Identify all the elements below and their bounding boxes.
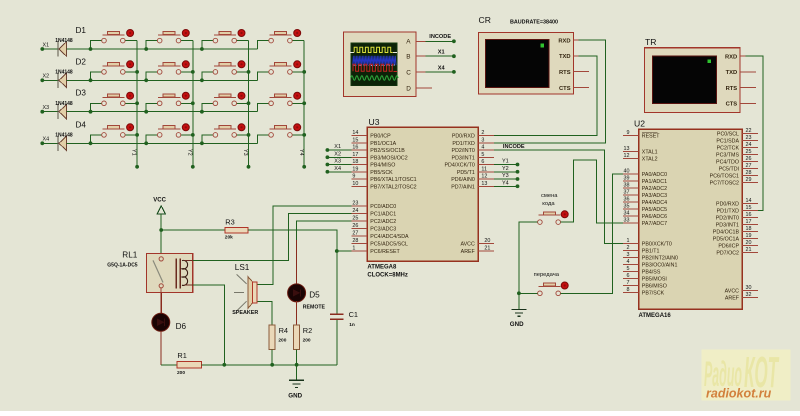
svg-text:PC1/SDA: PC1/SDA bbox=[716, 139, 739, 145]
svg-text:10: 10 bbox=[352, 181, 358, 187]
svg-text:GND: GND bbox=[510, 321, 524, 328]
button keypad row1 col2 bbox=[144, 30, 193, 51]
svg-text:RTS: RTS bbox=[726, 86, 738, 92]
svg-text:PB5/SCK: PB5/SCK bbox=[370, 170, 393, 176]
pin U2 40 PA0/ADC0 bbox=[623, 169, 667, 178]
terminal TR pin names bbox=[725, 54, 737, 107]
svg-text:PA4/ADC4: PA4/ADC4 bbox=[642, 200, 667, 206]
svg-text:RXD: RXD bbox=[725, 54, 737, 60]
svg-text:1: 1 bbox=[352, 246, 355, 252]
pin U2 36 PA4/ADC4 bbox=[623, 197, 667, 206]
svg-text:1: 1 bbox=[627, 238, 630, 244]
svg-text:X2: X2 bbox=[334, 151, 341, 157]
pin U3 23 PC0/ADC0 bbox=[351, 201, 396, 210]
node X1 label bbox=[43, 42, 50, 48]
svg-text:X3: X3 bbox=[334, 159, 341, 165]
pin U3 10 PB7/XTAL2/TOSC2 bbox=[351, 181, 416, 190]
svg-text:REMOTE: REMOTE bbox=[303, 305, 326, 311]
power VCC label bbox=[153, 197, 166, 203]
svg-text:PB5/MOSI: PB5/MOSI bbox=[642, 277, 667, 283]
pin U2 20 PD6/ICP bbox=[718, 240, 758, 249]
svg-text:3: 3 bbox=[627, 252, 630, 258]
pin U3 19 PB5/SCK bbox=[351, 166, 393, 175]
svg-text:XTAL2: XTAL2 bbox=[642, 157, 658, 163]
diode D2 1N4148 bbox=[55, 57, 86, 88]
button keypad row3 col2 bbox=[144, 92, 194, 113]
svg-text:PB2/INT2/AIN0: PB2/INT2/AIN0 bbox=[642, 256, 678, 262]
wire smena left terminal down to junction bbox=[519, 222, 538, 293]
svg-text:PD2/INT0: PD2/INT0 bbox=[452, 148, 475, 154]
wire relay coil bottom to ground rail bbox=[193, 285, 226, 367]
node Y1 column label bbox=[131, 149, 137, 156]
svg-text:35: 35 bbox=[624, 204, 630, 210]
pin U3 26 PC3/ADC3 bbox=[351, 223, 396, 232]
pin U2 21 PD7/OC2 bbox=[716, 247, 758, 256]
pin U2 18 PD4/OC1B bbox=[713, 226, 758, 235]
svg-text:PD3/INT1: PD3/INT1 bbox=[716, 223, 739, 229]
svg-text:PD6/AIN0: PD6/AIN0 bbox=[451, 177, 475, 183]
mcu U3 body bbox=[367, 127, 478, 261]
pin U2 8 PB7/SCK bbox=[623, 287, 665, 296]
svg-text:PC4/ADC4/SDA: PC4/ADC4/SDA bbox=[370, 234, 409, 240]
pin TR TXD (unconnected) bbox=[740, 71, 756, 73]
wire diode D3 to keypad row 3 bbox=[67, 111, 258, 113]
oscilloscope channel labels A B C D bbox=[406, 39, 411, 93]
svg-text:6: 6 bbox=[627, 273, 630, 279]
svg-text:PC0/SCL: PC0/SCL bbox=[717, 132, 739, 138]
svg-text:C1: C1 bbox=[349, 310, 358, 319]
mcu U3 reference label bbox=[369, 117, 380, 127]
svg-text:X1: X1 bbox=[438, 50, 445, 56]
pin U2 3 PB2/INT2/AIN0 bbox=[623, 252, 678, 261]
svg-text:27: 27 bbox=[352, 231, 358, 237]
pin U2 30 AVCC bbox=[725, 285, 758, 294]
svg-text:A: A bbox=[406, 39, 411, 46]
svg-text:20k: 20k bbox=[225, 235, 233, 241]
svg-text:RESET: RESET bbox=[642, 134, 660, 140]
svg-text:LS1: LS1 bbox=[235, 263, 250, 272]
wire TR RXD to U2 PD1/TXD bbox=[746, 56, 764, 211]
pin CR RTS (unconnected) bbox=[573, 71, 589, 73]
button "передача" (transmit) bbox=[538, 282, 569, 296]
svg-text:PA0/ADC0: PA0/ADC0 bbox=[642, 172, 667, 178]
wire U3 PC2 to D5 bbox=[297, 221, 352, 285]
svg-text:12: 12 bbox=[481, 174, 487, 180]
wire oscilloscope A to node INCODE bbox=[425, 39, 455, 43]
pin CR RXD bbox=[573, 39, 578, 41]
resistor R4 200 bbox=[269, 325, 288, 350]
svg-text:1N4148: 1N4148 bbox=[55, 70, 73, 76]
pin U2 5 PB4/SS bbox=[623, 266, 661, 275]
svg-text:14: 14 bbox=[352, 130, 358, 136]
wire R2 to ground rail bbox=[295, 350, 299, 367]
wire speaker to R4 bbox=[258, 302, 273, 325]
pin U3 16 PB2/SS/OC1B bbox=[351, 145, 405, 154]
button keypad row2 col2 bbox=[144, 61, 194, 82]
svg-text:кода: кода bbox=[542, 201, 555, 207]
pin U3 5 PD3/INT1 bbox=[452, 152, 494, 161]
svg-text:26: 26 bbox=[746, 156, 752, 162]
svg-text:22: 22 bbox=[746, 128, 752, 134]
node Y1 label (U3) bbox=[502, 159, 509, 165]
wire D5 to R2 bbox=[296, 301, 298, 325]
svg-text:GND: GND bbox=[288, 393, 302, 400]
svg-text:PD4/XCK/T0: PD4/XCK/T0 bbox=[444, 163, 474, 169]
node X4 label (scope) bbox=[438, 65, 446, 71]
svg-text:X4: X4 bbox=[43, 137, 50, 143]
terminal CR label bbox=[479, 15, 491, 25]
wire keypad column Y3 vertical bbox=[247, 41, 251, 169]
svg-text:5: 5 bbox=[627, 266, 630, 272]
button "смена кода" label bbox=[541, 193, 558, 207]
svg-text:PC5/TDI: PC5/TDI bbox=[719, 167, 739, 173]
svg-text:2: 2 bbox=[627, 245, 630, 251]
svg-text:X1: X1 bbox=[334, 144, 341, 150]
wire CR RXD to U3 PD1/TXD bbox=[494, 40, 606, 143]
pin U2 4 PB3/OC0/AIN1 bbox=[623, 259, 678, 268]
svg-text:RL1: RL1 bbox=[122, 251, 137, 260]
pin U2 2 PB1/T1 bbox=[623, 245, 660, 254]
button "смена кода" (code change) bbox=[538, 211, 569, 225]
svg-text:R3: R3 bbox=[225, 218, 234, 227]
node X3 label bbox=[43, 105, 50, 111]
svg-text:BAUDRATE=38400: BAUDRATE=38400 bbox=[510, 20, 558, 26]
wire VCC to R3 bbox=[161, 229, 225, 231]
pin U2 22 PC0/SCL bbox=[717, 128, 758, 137]
svg-text:11: 11 bbox=[481, 166, 487, 172]
pin U3 6 PD4/XCK/T0 bbox=[444, 159, 493, 168]
svg-text:PB0/ICP: PB0/ICP bbox=[370, 134, 391, 140]
node X3 label (U3) bbox=[334, 159, 341, 165]
pin TR RTS (unconnected) bbox=[740, 87, 756, 89]
svg-text:12: 12 bbox=[624, 153, 630, 159]
svg-text:PB1/OC1A: PB1/OC1A bbox=[370, 141, 396, 147]
svg-text:TXD: TXD bbox=[559, 54, 571, 60]
wire relay switch to D6 bbox=[160, 288, 162, 314]
svg-text:25: 25 bbox=[352, 216, 358, 222]
oscilloscope screen with waveforms bbox=[350, 43, 398, 86]
svg-text:X4: X4 bbox=[334, 166, 341, 172]
button keypad row2 col4 bbox=[258, 61, 307, 81]
pin CR TXD bbox=[573, 55, 578, 57]
svg-text:X3: X3 bbox=[43, 105, 50, 111]
svg-text:VCC: VCC bbox=[153, 197, 166, 203]
svg-text:28: 28 bbox=[746, 170, 752, 176]
svg-text:X2: X2 bbox=[43, 74, 50, 80]
svg-text:21: 21 bbox=[484, 246, 490, 252]
svg-text:18: 18 bbox=[746, 226, 752, 232]
pin U3 15 PB1/OC1A bbox=[351, 137, 396, 146]
wire node X1 stub to U3 bbox=[326, 148, 352, 152]
speaker LS1 bbox=[232, 274, 258, 316]
button keypad row4 col3 bbox=[200, 124, 250, 145]
svg-text:29: 29 bbox=[746, 177, 752, 183]
node X4 label (U3) bbox=[334, 166, 341, 172]
button keypad row3 col1 bbox=[89, 92, 139, 113]
svg-text:200: 200 bbox=[303, 338, 311, 344]
svg-text:13: 13 bbox=[481, 181, 487, 187]
svg-text:26: 26 bbox=[352, 223, 358, 229]
svg-text:PB6/MISO: PB6/MISO bbox=[642, 284, 667, 290]
svg-text:33: 33 bbox=[624, 218, 630, 224]
pin U2 9 RESET bbox=[623, 130, 660, 139]
svg-text:PD1/TXD: PD1/TXD bbox=[452, 141, 475, 147]
svg-text:PB4/SS: PB4/SS bbox=[642, 270, 661, 276]
svg-text:PB0/XCK/T0: PB0/XCK/T0 bbox=[642, 242, 672, 248]
svg-text:17: 17 bbox=[352, 152, 358, 158]
svg-text:PA2/ADC2: PA2/ADC2 bbox=[642, 186, 667, 192]
node X1 label (scope) bbox=[438, 50, 445, 56]
svg-text:4: 4 bbox=[481, 145, 484, 151]
pin CR CTS (unconnected) bbox=[573, 87, 589, 89]
pin U2 17 PD3/INT1 bbox=[716, 219, 758, 228]
svg-text:PB4/MISO: PB4/MISO bbox=[370, 163, 395, 169]
node INCODE label (U3) bbox=[503, 144, 525, 150]
pin U3 21 AREF bbox=[461, 246, 494, 255]
svg-text:CTS: CTS bbox=[559, 86, 571, 92]
svg-text:19: 19 bbox=[352, 166, 358, 172]
terminal CR pin names bbox=[558, 38, 570, 91]
svg-text:28: 28 bbox=[352, 238, 358, 244]
pin U2 25 PC3/TMS bbox=[716, 149, 758, 158]
svg-text:R4: R4 bbox=[279, 326, 288, 335]
svg-text:X4: X4 bbox=[438, 65, 446, 71]
svg-text:24: 24 bbox=[746, 142, 752, 148]
svg-text:1N4148: 1N4148 bbox=[55, 101, 73, 107]
button keypad row4 col4 bbox=[258, 124, 307, 144]
pin oscilloscope B bbox=[416, 55, 425, 57]
svg-text:32: 32 bbox=[746, 292, 752, 298]
svg-text:6: 6 bbox=[481, 159, 484, 165]
node Y3 column label bbox=[242, 149, 248, 156]
pin U2 1 PB0/XCK/T0 bbox=[623, 238, 672, 247]
svg-text:RTS: RTS bbox=[559, 70, 571, 76]
svg-text:25: 25 bbox=[746, 149, 752, 155]
resistor R2 200 bbox=[294, 325, 313, 350]
node X2 terminal dot bbox=[40, 78, 44, 82]
svg-text:20: 20 bbox=[484, 238, 490, 244]
mcu U2 value label bbox=[639, 313, 672, 319]
svg-text:9: 9 bbox=[627, 130, 630, 136]
wire R3 to U3 PC6/RESET and C1 bbox=[248, 230, 351, 251]
wire X1 to diode D1 bbox=[42, 48, 58, 50]
node RESET net junction bbox=[335, 249, 339, 253]
svg-text:PD0/RXD: PD0/RXD bbox=[452, 134, 475, 140]
svg-text:PA1/ADC1: PA1/ADC1 bbox=[642, 179, 667, 185]
wire diode D4 to keypad row 4 bbox=[67, 142, 258, 144]
pin U2 33 PA7/ADC7 bbox=[623, 218, 667, 227]
pin U3 11 PD5/T1 bbox=[457, 166, 494, 175]
pin U3 28 PC5/ADC5/SCL bbox=[351, 238, 408, 247]
node X2 label (U3) bbox=[334, 151, 341, 157]
node Y3 label (U3) bbox=[502, 173, 509, 179]
svg-text:37: 37 bbox=[624, 190, 630, 196]
svg-text:9: 9 bbox=[352, 174, 355, 180]
svg-text:PC7/TOSC2: PC7/TOSC2 bbox=[710, 181, 739, 187]
svg-text:SPEAKER: SPEAKER bbox=[232, 310, 258, 316]
terminal TR label bbox=[645, 37, 656, 47]
svg-text:PD7/OC2: PD7/OC2 bbox=[716, 251, 739, 257]
svg-text:B: B bbox=[406, 54, 410, 61]
button keypad row2 col3 bbox=[200, 61, 250, 82]
pin U2 29 PC7/TOSC2 bbox=[710, 177, 758, 186]
svg-text:Y3: Y3 bbox=[242, 149, 248, 156]
svg-text:27: 27 bbox=[746, 163, 752, 169]
junction buttons to ground bbox=[517, 291, 538, 295]
node X1 terminal dot bbox=[40, 47, 44, 51]
pin U3 24 PC1/ADC1 bbox=[351, 208, 396, 217]
svg-text:CLOCK=8MHz: CLOCK=8MHz bbox=[367, 272, 408, 278]
svg-text:15: 15 bbox=[746, 205, 752, 211]
pin U2 28 PC6/TOSC1 bbox=[710, 170, 758, 179]
svg-text:5: 5 bbox=[481, 152, 484, 158]
svg-text:ATMEGA8: ATMEGA8 bbox=[367, 264, 397, 270]
svg-text:PC4/TDO: PC4/TDO bbox=[716, 160, 739, 166]
wire X3 to diode D3 bbox=[42, 111, 58, 113]
svg-text:D4: D4 bbox=[76, 120, 87, 129]
svg-text:PD3/INT1: PD3/INT1 bbox=[452, 155, 475, 161]
pin U2 13 XTAL1 bbox=[623, 146, 658, 155]
svg-text:4: 4 bbox=[627, 259, 630, 265]
svg-text:PD4/OC1B: PD4/OC1B bbox=[713, 230, 740, 236]
wire oscilloscope B to node X1 bbox=[425, 54, 455, 58]
svg-text:16: 16 bbox=[352, 145, 358, 151]
svg-text:INCODE: INCODE bbox=[429, 34, 451, 40]
button keypad row4 col2 bbox=[144, 124, 194, 145]
svg-text:1N4148: 1N4148 bbox=[55, 38, 73, 44]
svg-text:radiokot.ru: radiokot.ru bbox=[706, 387, 772, 401]
button keypad row1 col4 bbox=[258, 30, 305, 50]
wire R4 to ground rail bbox=[270, 350, 274, 367]
wire U3 to node Y2 stub bbox=[494, 170, 519, 174]
wire smena right terminal to U2 PA7 bbox=[561, 160, 623, 223]
svg-text:PC3/TMS: PC3/TMS bbox=[716, 153, 739, 159]
pin U2 24 PC2/TCK bbox=[717, 142, 758, 151]
pin U2 6 PB5/MOSI bbox=[623, 273, 667, 282]
pin TR RXD bbox=[740, 55, 746, 57]
svg-text:передача: передача bbox=[534, 272, 560, 278]
mcu U3 value labels bbox=[367, 264, 408, 278]
pin TR CTS (unconnected) bbox=[740, 102, 756, 104]
wire CR TXD to U3 PD0/RXD bbox=[494, 56, 597, 136]
mcu U2 reference label bbox=[634, 118, 645, 128]
svg-text:PB7/XTAL2/TOSC2: PB7/XTAL2/TOSC2 bbox=[370, 184, 416, 190]
svg-text:PC1/ADC1: PC1/ADC1 bbox=[370, 212, 396, 218]
diode D6 (LED) bbox=[152, 313, 187, 331]
svg-text:Y1: Y1 bbox=[131, 149, 137, 156]
svg-text:2: 2 bbox=[481, 130, 484, 136]
svg-text:23: 23 bbox=[746, 135, 752, 141]
power VCC symbol bbox=[157, 206, 165, 230]
svg-text:40: 40 bbox=[624, 169, 630, 175]
svg-text:18: 18 bbox=[352, 159, 358, 165]
svg-text:AVCC: AVCC bbox=[725, 289, 739, 295]
svg-text:Y2: Y2 bbox=[502, 166, 509, 172]
svg-text:PD1/TXD: PD1/TXD bbox=[717, 209, 740, 215]
pin U3 18 PB4/MISO bbox=[351, 159, 395, 168]
svg-text:Y1: Y1 bbox=[502, 159, 509, 165]
pin U3 25 PC2/ADC2 bbox=[351, 216, 396, 225]
diode D1 1N4148 bbox=[55, 26, 86, 57]
node X4 terminal dot bbox=[40, 141, 44, 145]
svg-text:1n: 1n bbox=[349, 322, 355, 328]
svg-text:D3: D3 bbox=[76, 89, 87, 98]
pin U3 9 PB6/XTAL1/TOSC1 bbox=[351, 174, 416, 183]
wire X2 to diode D2 bbox=[42, 79, 58, 81]
svg-text:PA5/ADC5: PA5/ADC5 bbox=[642, 207, 667, 213]
pin oscilloscope D (unconnected) bbox=[416, 87, 432, 89]
relay RL1 labels bbox=[107, 251, 138, 269]
svg-text:AREF: AREF bbox=[461, 249, 476, 255]
svg-text:24: 24 bbox=[352, 208, 358, 214]
wire node X4 stub to U3 bbox=[326, 170, 352, 174]
pin U3 2 PD0/RXD bbox=[452, 130, 494, 139]
svg-text:CR: CR bbox=[479, 15, 491, 25]
svg-text:D6: D6 bbox=[176, 322, 187, 331]
svg-text:U3: U3 bbox=[369, 117, 380, 127]
button keypad row4 col1 bbox=[89, 124, 139, 145]
svg-text:PC2/TCK: PC2/TCK bbox=[717, 146, 740, 152]
pin U3 3 PD1/TXD bbox=[452, 137, 493, 146]
wire U3 to node Y4 stub bbox=[494, 184, 519, 188]
terminal CR screen bbox=[485, 39, 549, 87]
terminal TR screen bbox=[653, 56, 717, 103]
wire diode D2 to keypad row 2 bbox=[67, 79, 258, 81]
resistor R3 20k bbox=[225, 218, 248, 241]
wire X4 to diode D4 bbox=[42, 142, 58, 144]
svg-text:PD0/RXD: PD0/RXD bbox=[716, 202, 739, 208]
svg-text:C: C bbox=[406, 69, 411, 76]
wire oscilloscope C to node X4 bbox=[425, 70, 455, 74]
svg-text:INCODE: INCODE bbox=[503, 144, 525, 150]
pin U2 34 PA6/ADC6 bbox=[623, 211, 667, 220]
svg-text:PB3/OC0/AIN1: PB3/OC0/AIN1 bbox=[642, 263, 678, 269]
svg-text:PA3/ADC3: PA3/ADC3 bbox=[642, 193, 667, 199]
svg-text:PC6/TOSC1: PC6/TOSC1 bbox=[710, 174, 739, 180]
pin U3 27 PC4/ADC4/SDA bbox=[351, 231, 409, 240]
svg-text:U2: U2 bbox=[634, 118, 645, 128]
svg-text:XTAL1: XTAL1 bbox=[642, 150, 658, 156]
diode D3 1N4148 bbox=[55, 89, 86, 120]
wire peredacha right terminal to U2 PA0 bbox=[561, 174, 623, 293]
button keypad row2 col1 bbox=[89, 61, 139, 82]
pin U2 35 PA5/ADC5 bbox=[623, 204, 667, 213]
resistor R1 200 bbox=[177, 351, 202, 376]
pin oscilloscope A bbox=[416, 40, 425, 42]
wire U3 PC0 to speaker bbox=[258, 206, 352, 284]
svg-text:PD5/T1: PD5/T1 bbox=[457, 170, 475, 176]
pin U3 12 PD6/AIN0 bbox=[451, 174, 494, 183]
svg-text:TR: TR bbox=[645, 37, 656, 47]
pin U2 16 PD2/INT0 bbox=[716, 212, 758, 221]
svg-text:38: 38 bbox=[624, 183, 630, 189]
svg-text:PD6/ICP: PD6/ICP bbox=[718, 244, 739, 250]
ground (bottom) bbox=[288, 365, 304, 400]
wire keypad column Y2 vertical bbox=[191, 41, 195, 169]
svg-text:Y4: Y4 bbox=[298, 149, 304, 156]
svg-text:PD2/INT0: PD2/INT0 bbox=[716, 216, 739, 222]
relay RL1 body bbox=[147, 254, 193, 293]
pin U3 4 PD2/INT0 bbox=[452, 145, 494, 154]
svg-text:D5: D5 bbox=[309, 290, 320, 299]
svg-text:PD7/AIN1: PD7/AIN1 bbox=[451, 184, 475, 190]
node Y2 column label bbox=[186, 149, 192, 156]
svg-text:30: 30 bbox=[746, 285, 752, 291]
terminal CR BAUDRATE label bbox=[510, 20, 558, 26]
svg-text:PB3/MOSI/OC2: PB3/MOSI/OC2 bbox=[370, 155, 407, 161]
svg-text:Y2: Y2 bbox=[186, 149, 192, 156]
svg-text:21: 21 bbox=[746, 247, 752, 253]
